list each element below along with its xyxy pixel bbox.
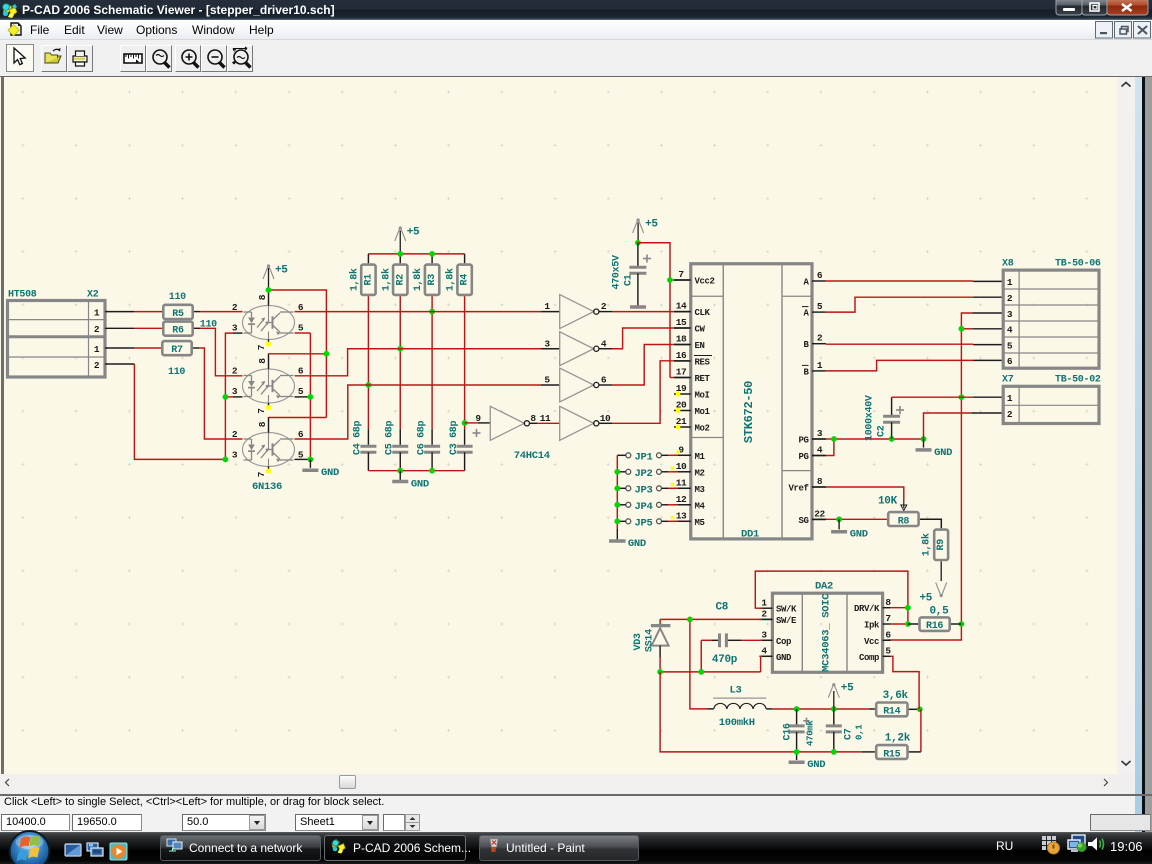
pin 13 M5 DD1 [674,520,691,522]
svg-text:8: 8 [817,476,823,487]
svg-text:1: 1 [1007,277,1013,288]
svg-text:TB-50-06: TB-50-06 [1055,259,1101,270]
no-connect pin7 U1 [266,342,271,347]
inverter gate DD2.1 (74HC14) [560,295,594,329]
svg-text:JP5: JP5 [635,517,653,529]
svg-text:10: 10 [600,413,611,424]
svg-text:C7: C7 [844,728,855,740]
node JP rail [614,469,620,475]
svg-text:GND: GND [776,653,792,663]
pin 3 Cop DA2 [759,639,772,641]
optocoupler U2 6N136 [243,369,295,403]
wire JP2 to M2 [662,471,669,473]
no-connect pin7 U3 [266,469,271,474]
node C16 bottom [794,749,800,755]
svg-text:M3: M3 [695,485,705,495]
quick launch: media player [110,843,127,860]
svg-text:1,8k: 1,8k [348,268,360,291]
svg-text:C8: C8 [716,602,729,614]
wire cathode chain U1.3-U2.3-U3.3 [233,332,243,334]
wire emitter ground rail [295,332,311,334]
node C7 top [831,706,837,712]
svg-text:L3: L3 [730,685,742,697]
wire R4 to gate0 input [465,422,478,424]
connector X2 HT508 [8,301,106,378]
svg-text:Mo1: Mo1 [695,407,711,417]
svg-text:2: 2 [1007,409,1013,420]
wire +24V rail X8.3/X8.4 [972,312,1003,314]
no-connect mark pin10 [671,466,674,469]
capacitor C2 1000x40V [891,397,893,416]
svg-text:2: 2 [232,366,238,377]
jumper JP1 [626,453,631,458]
resistor R9 1,8k [934,530,948,560]
ground C16 [789,760,805,764]
wire CLK line U1.6-gate1 [295,311,542,313]
inductor L3 100mkH [713,697,766,699]
svg-text:1: 1 [94,344,100,355]
ground C1 [630,305,646,309]
zoom out button [201,45,227,72]
wire JP4 to M4 [662,504,669,506]
resistor R5 [163,305,192,319]
jumper JP5 [626,519,631,524]
svg-text:PG: PG [798,452,808,462]
pin 5 A DD1 right [812,311,826,313]
wire R16 leads [908,623,918,625]
svg-text:18: 18 [676,334,687,345]
pin 11 M3 DD1 [674,487,691,489]
pin 7 Vcc2 DD1 [674,279,691,281]
wire C8 to output bus [700,640,702,672]
wire X2.2 to R6 [105,327,134,329]
svg-text:3: 3 [544,338,550,349]
zoom window button [146,45,172,72]
svg-text:MC34063_ SOIC: MC34063_ SOIC [821,593,833,672]
wire phase B [826,343,973,345]
node R4-line [462,420,468,426]
wire L3 to R14 [766,708,772,710]
wire SW/E net to L3 [762,618,772,620]
svg-text:8: 8 [530,413,536,424]
svg-text:9: 9 [678,444,684,455]
svg-text:GND: GND [807,759,825,771]
node SG gnd [836,516,842,522]
no-connect pin21 [676,425,681,430]
wire phase B-bar [826,360,973,371]
pin 1 SW/K DA2 [759,607,772,609]
node JP rail [614,485,620,491]
svg-text:GND: GND [850,529,868,541]
svg-text:GND: GND [934,447,952,459]
svg-text:3: 3 [761,630,767,641]
svg-text:EN: EN [695,341,705,351]
svg-text:C6 68p: C6 68p [416,420,427,455]
svg-text:M2: M2 [695,468,705,478]
ruler button [120,45,146,72]
svg-text:470x5V: 470x5V [612,255,623,290]
pin 12 M4 DD1 [674,504,691,506]
wire JP1 to M1 [662,454,669,456]
wire C2 to X7.1 [892,396,974,398]
svg-text:Comp: Comp [859,653,879,663]
svg-text:Mo2: Mo2 [695,424,710,434]
svg-text:4: 4 [601,338,607,349]
svg-text:1,8k: 1,8k [445,268,457,291]
svg-text:1: 1 [94,307,100,318]
node PG junction [831,436,837,442]
node PG gnd [921,436,927,442]
pin 17 RET DD1 [674,377,691,379]
wire JP ground rail [616,455,618,529]
optocoupler U3 6N136 [243,433,295,467]
svg-text:GND: GND [411,479,429,491]
svg-text:R15: R15 [883,749,900,760]
svg-text:3: 3 [232,386,238,397]
svg-text:PG: PG [798,436,808,446]
node cathode-U3.3 [223,457,229,463]
node DRV pin8 [905,605,911,611]
wire R3 column [431,296,433,429]
svg-text:DRV/K: DRV/K [854,604,880,614]
svg-text:11: 11 [540,413,551,424]
svg-text:SW/E: SW/E [776,616,797,626]
svg-text:5: 5 [817,301,823,312]
svg-text:1: 1 [817,360,823,371]
wire R14 right [909,708,920,710]
pin 5 Comp DA2 right [883,655,891,657]
svg-text:SS14: SS14 [645,629,656,652]
svg-text:11: 11 [676,477,687,488]
svg-text:1,8k: 1,8k [921,533,933,556]
svg-text:13: 13 [676,510,687,521]
pin 2 SW/E DA2 [759,618,772,620]
svg-text:M4: M4 [695,501,706,511]
ground cap bank [399,471,401,480]
svg-text:3: 3 [232,450,238,461]
svg-text:SW/K: SW/K [776,605,797,615]
svg-text:1,8k: 1,8k [380,268,392,291]
wire +5 to opto pin8 rail [268,268,270,290]
svg-text:MoI: MoI [695,391,710,401]
wire X2.4 cathode return [105,363,134,365]
svg-text:R6: R6 [172,326,184,337]
svg-text:5: 5 [885,646,891,657]
connector X8 TB-50-06 [1003,270,1099,368]
capacitor C16 470mk [796,709,798,725]
pin 16 RES DD1 [674,360,691,362]
node JP rail [614,518,620,524]
pin 19 MoI DD1 [674,393,691,395]
svg-text:R16: R16 [926,621,943,632]
node X7.1 rail [959,394,965,400]
svg-text:10: 10 [676,461,687,472]
svg-text:110: 110 [168,367,185,378]
svg-text:7: 7 [885,613,891,624]
svg-text:DA2: DA2 [815,581,833,593]
svg-text:C3 68p: C3 68p [449,420,460,455]
svg-text:2: 2 [1007,293,1013,304]
ground C2 [923,439,925,448]
svg-text:3: 3 [232,323,238,334]
capacitor C3 68p [457,446,473,452]
svg-text:8: 8 [257,358,268,364]
svg-text:+5: +5 [645,219,658,231]
pin 2 B DD1 right [812,343,826,345]
wire gate1 out to CLK pin14 [599,311,612,313]
svg-text:Vref: Vref [788,484,808,494]
svg-text:C5 68p: C5 68p [384,420,395,455]
inverter gate DD2.4 (pin11-10) [560,406,594,440]
node C7 bottom [831,749,837,755]
svg-text:HT508: HT508 [8,290,37,301]
menu bar document icon [8,23,21,36]
resistor R15 1,2k [876,745,907,759]
quick launch: switch windows [87,843,103,856]
node opto2 rail [324,351,330,357]
svg-text:X7: X7 [1002,375,1014,386]
svg-text:100mkH: 100mkH [719,717,755,729]
zoom pointer button [227,45,253,72]
wire phase A-bar [826,297,973,312]
pin 4 GND DA2 [759,655,772,657]
capacitor C5 68p [392,446,408,452]
svg-text:JP2: JP2 [635,468,653,480]
wire VD3 to R15 bottom bus [660,672,862,752]
taskbar btn3 icon: paint [490,839,498,852]
svg-text:R3: R3 [427,274,438,286]
svg-text:6: 6 [298,366,304,377]
svg-text:5: 5 [298,386,304,397]
svg-text:2: 2 [817,333,823,344]
svg-text:15: 15 [676,317,687,328]
svg-text:X2: X2 [87,290,99,301]
node JP rail [614,502,620,508]
IC DD1 STK672-50 [691,264,812,539]
svg-text:JP3: JP3 [635,484,653,496]
tray: update icon [1042,836,1060,854]
polarity C3 [473,429,481,437]
svg-text:1000x40V: 1000x40V [865,395,876,441]
svg-text:3: 3 [817,428,823,439]
capacitor C7 0,1 [833,709,835,725]
node R2-line [397,346,403,352]
svg-text:RES: RES [695,358,711,368]
svg-text:+5: +5 [275,265,288,277]
wire gate4 out to RES pin16 [599,422,612,424]
svg-text:VD3: VD3 [633,633,644,650]
wire R7 to U3 pin2 [193,347,199,349]
node opto1 pin8 [266,287,272,293]
wire EN line U3.6-gate3 [295,385,542,439]
resistor R7 [162,341,191,355]
pin 20 Mo1 DD1 [674,410,691,412]
svg-text:+5: +5 [920,593,933,605]
capacitor C1 470x5V [637,243,639,266]
pin 3 PG DD1 right [812,438,826,440]
node emitter U2.5 [308,394,314,400]
svg-text:0,5: 0,5 [930,606,950,618]
svg-text:6: 6 [601,375,607,386]
pin 18 EN DD1 [674,344,691,346]
wire +5 to Vcc2 and RET [638,243,670,378]
wire PG net [812,438,826,440]
no-connect mark pin11 [671,483,674,486]
jumper JP3 [626,486,631,491]
svg-text:R8: R8 [898,516,910,527]
svg-text:2: 2 [94,324,100,335]
wire phase A [826,280,973,282]
power +5 C1 [633,219,644,233]
power +5 R9 [940,561,942,581]
svg-text:JP1: JP1 [635,451,653,463]
svg-text:7: 7 [256,408,267,414]
node R3-line [429,309,435,315]
svg-text:110: 110 [169,292,186,303]
svg-text:7: 7 [678,269,684,280]
no-connect mark pin13 [671,516,674,519]
diode VD3 SS14 [659,619,661,624]
pin 6 Vcc DA2 right [883,639,891,641]
svg-text:12: 12 [676,494,687,505]
tray: speaker icon [1088,838,1104,851]
wire R4 column [464,296,466,429]
wire output bus [660,671,761,673]
svg-text:14: 14 [676,301,687,312]
svg-text:22: 22 [814,509,825,520]
optocoupler U1 6N136 [243,306,295,340]
svg-text:74HC14: 74HC14 [514,450,550,462]
power +5 C7 [833,691,835,709]
svg-text:1,2k: 1,2k [885,732,911,744]
svg-text:RET: RET [695,374,711,384]
node C5 gnd [397,468,403,474]
select tool button (pressed) [7,45,34,72]
svg-text:3: 3 [1007,309,1013,320]
svg-text:DD1: DD1 [741,529,759,541]
pin 15 CW DD1 [674,327,691,329]
connector X7 TB-50-02 [1003,386,1099,423]
svg-text:2: 2 [232,429,238,440]
pin 22 SG DD1 right [812,519,826,521]
svg-text:STK672-50: STK672-50 [742,381,756,443]
pin 21 Mo2 DD1 [674,426,691,428]
svg-text:5: 5 [544,375,550,386]
svg-text:7: 7 [256,344,267,350]
pin 6 A DD1 right [812,280,826,282]
svg-text:1: 1 [1007,393,1013,404]
wire X7.2 to gnd net [924,413,972,439]
ground SG [838,519,840,529]
wire R8 to R9 [920,519,941,528]
node rail R2 [397,251,403,257]
svg-text:R5: R5 [172,309,184,320]
svg-text:C1: C1 [624,274,635,286]
svg-text:Vcc: Vcc [864,637,879,647]
svg-text:9: 9 [475,413,481,424]
svg-text:R4: R4 [460,274,471,286]
node C2 tap [889,436,895,442]
node R14-R15-Comp [917,706,923,712]
wire gate3 out to EN pin18 [599,384,612,386]
svg-text:8: 8 [257,294,268,300]
svg-text:6: 6 [1007,356,1013,367]
pin 9 M1 DD1 [674,454,691,456]
svg-text:8: 8 [257,421,268,427]
pin 4 PG DD1 right [812,455,826,457]
svg-text:C2: C2 [877,425,888,437]
svg-text:M1: M1 [695,452,706,462]
svg-text:4: 4 [817,445,823,456]
wire +5 rail R1-R4 [368,253,464,255]
wire JP3 to M3 [662,487,669,489]
node rail R3 [429,251,435,257]
pin 7 Ipk DA2 right [883,623,891,625]
svg-text:6: 6 [817,270,823,281]
svg-text:TB-50-02: TB-50-02 [1055,375,1101,386]
wire cap ground bus [368,470,464,472]
svg-text:7: 7 [256,471,267,477]
wire R6 to U2 pin2 [194,327,200,329]
svg-text:470mk: 470mk [806,720,816,746]
svg-text:CW: CW [695,325,706,335]
pin 1 B DD1 right [812,370,826,372]
print button [67,45,93,72]
node C6 gnd [429,468,435,474]
svg-text:+5: +5 [407,227,420,239]
svg-text:2: 2 [601,301,607,312]
inverter gate DD2.5 (pin9-8) [490,406,524,440]
resistor R3 1,8k [425,265,439,295]
svg-text:1: 1 [761,597,767,608]
ground opto emitters [309,459,311,468]
resistor R2 1,8k [393,265,407,295]
pin 8 Vref DD1 right [812,486,826,488]
no-connect pin19 [676,392,681,397]
IC DA2 MC34063 SOIC [772,593,882,672]
svg-text:GND: GND [321,467,339,479]
capacitor C4 68p [360,446,376,452]
resistor R16 0,5 [920,617,950,631]
no-connect pin20 [676,408,681,413]
svg-text:470p: 470p [712,654,738,666]
svg-text:4: 4 [1007,325,1013,336]
svg-text:Ipk: Ipk [864,621,880,631]
svg-text:1,8k: 1,8k [412,268,424,291]
svg-text:6N136: 6N136 [252,481,282,493]
power +5 R bank [395,227,406,241]
wire gate2 out to CW pin15 [599,348,612,350]
svg-text:C4 68p: C4 68p [353,420,364,455]
no-connect pin7 U2 [266,405,271,410]
wire SG to R8 [812,518,826,520]
wire Vref to R8 [812,486,826,488]
svg-text:17: 17 [676,367,687,378]
wire R2 column [399,296,401,429]
svg-text:GND: GND [628,538,646,550]
pin 14 CLK DD1 [674,311,691,313]
wire R15 right [909,751,921,753]
quick launch: show desktop [65,844,81,856]
jumper JP2 [626,469,631,474]
node X8.4 rail [959,326,965,332]
pin 10 M2 DD1 [674,471,691,473]
resistor R4 1,8k [457,265,471,295]
node SW/E [687,617,693,623]
node C16 top [794,706,800,712]
inverter gate DD2.3 [560,368,594,402]
svg-text:16: 16 [676,350,687,361]
